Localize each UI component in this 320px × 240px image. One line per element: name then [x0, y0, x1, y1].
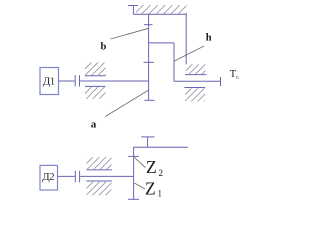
svg-text:Д1: Д1	[43, 75, 55, 87]
svg-text:1: 1	[158, 189, 163, 199]
svg-text:Z: Z	[145, 178, 156, 198]
svg-text:b: b	[236, 75, 239, 81]
svg-text:Д2: Д2	[42, 171, 54, 183]
svg-text:h: h	[206, 33, 212, 44]
svg-text:a: a	[91, 119, 97, 131]
svg-text:Z: Z	[146, 157, 157, 177]
svg-text:b: b	[101, 42, 107, 53]
svg-text:2: 2	[159, 168, 164, 178]
